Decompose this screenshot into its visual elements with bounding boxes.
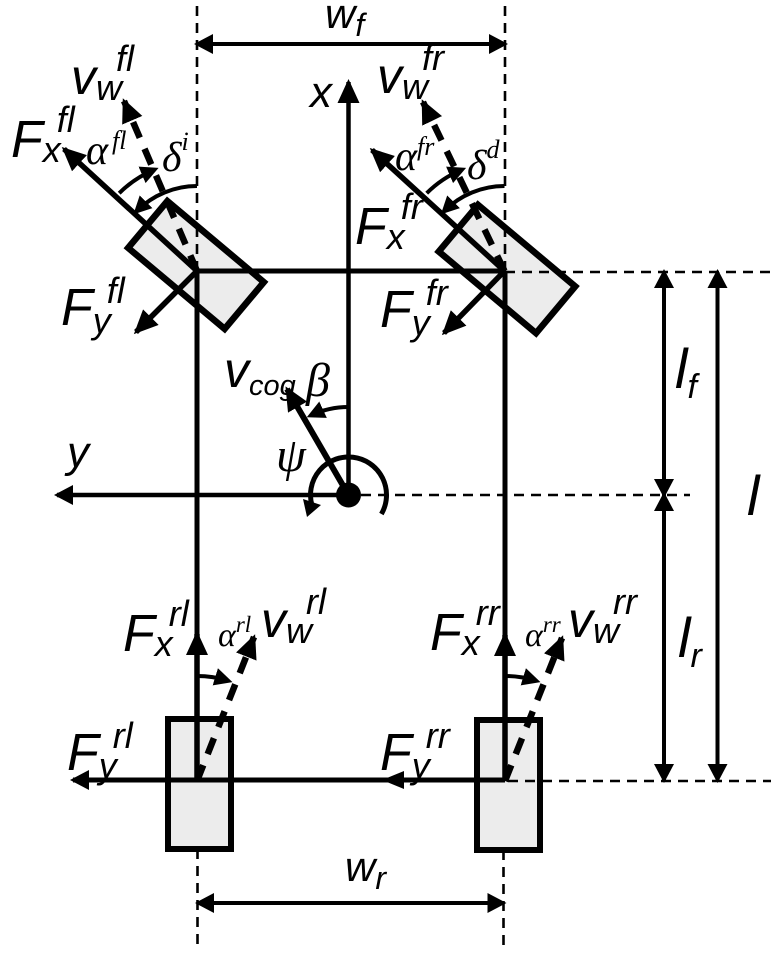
rear axle line [73,778,505,783]
alpha rl arc [197,676,228,681]
yaw arrowhead [303,499,321,517]
dimension w_f [197,42,505,46]
svg-text:l: l [747,464,761,527]
body right line [503,271,508,781]
v_w rl dashed arrow [197,637,254,781]
F_x rl arrow [194,634,200,781]
F_y rr arrowhead [382,771,404,789]
dashed guide horizontal front axle [505,271,771,274]
alpha rr arc [505,676,536,681]
wheel RL [168,719,231,849]
F_x rr arrow [502,635,508,781]
svg-text:x: x [308,68,334,117]
body left line [195,271,200,781]
dashed guide vertical right top [504,6,507,271]
alpha fl arc [119,170,154,193]
wheel RR [477,720,540,850]
delta i arc [137,186,197,211]
dashed guide horizontal cog [361,494,690,497]
dashed guide vertical left top [196,6,199,271]
delta d arc [444,186,504,211]
F fr longitudinal arrow [372,150,505,271]
wheel FR [439,205,575,333]
v_w fr dashed arrow [423,102,505,271]
svg-text:β: β [305,354,330,407]
beta arc [311,407,348,415]
svg-text:ψ: ψ [276,429,307,482]
svg-text:y: y [64,428,92,477]
y axis [57,493,349,498]
v_w fl dashed arrow [124,101,197,271]
x axis [346,82,351,495]
dimension l [716,272,720,780]
dimension l_f [662,272,666,495]
F fl longitudinal arrow [64,149,197,271]
dashed guide horizontal rear axle [508,780,771,783]
F_y fr arrow [444,271,505,333]
wheel FL [128,201,264,329]
v_cog arrow [287,389,349,495]
F_y fl arrow [136,271,197,332]
yaw circle psi [311,457,387,514]
v_w rr dashed arrow [505,638,562,781]
dashed guide vertical left bottom [196,849,199,951]
cog dot [336,483,361,508]
svg-text:wf: wf [325,0,367,43]
dimension w_r [198,901,504,905]
dimension l_r [662,495,666,780]
alpha fr arc [427,170,462,193]
dashed guide vertical right bottom [502,850,505,951]
front axle line [197,269,505,274]
